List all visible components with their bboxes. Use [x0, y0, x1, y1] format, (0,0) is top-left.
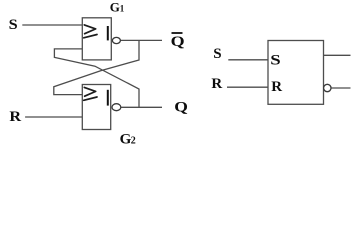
svg-text:1: 1: [120, 3, 125, 13]
svg-text:G: G: [120, 131, 132, 147]
svg-text:Q: Q: [174, 98, 188, 115]
svg-text:R: R: [211, 76, 222, 92]
svg-text:R: R: [9, 109, 22, 125]
svg-text:R: R: [271, 79, 282, 95]
svg-text:Q: Q: [171, 32, 185, 49]
svg-text:S: S: [9, 17, 18, 33]
svg-text:G: G: [110, 0, 120, 14]
svg-text:S: S: [213, 46, 221, 62]
svg-text:S: S: [270, 51, 280, 68]
svg-text:2: 2: [131, 135, 136, 146]
